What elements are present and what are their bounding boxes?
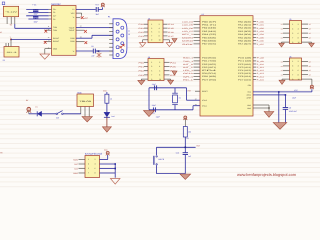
J3 right net labels bbox=[168, 23, 174, 38]
wire U1 AVCC rail bbox=[253, 94, 297, 100]
U1 left stubs PB bbox=[194, 22, 201, 44]
svg-text:LCD_D5: LCD_D5 bbox=[182, 24, 193, 27]
svg-text:PD1 (TXD): PD1 (TXD) bbox=[202, 60, 217, 63]
svg-text:PD3 (INT1): PD3 (INT1) bbox=[202, 66, 217, 69]
svg-text:P15: P15 bbox=[168, 27, 174, 30]
J5 right marks bbox=[309, 23, 311, 40]
svg-text:XTAL2: XTAL2 bbox=[202, 99, 207, 102]
svg-text:P_AD0: P_AD0 bbox=[257, 20, 264, 23]
U2 T2IN no-connect bbox=[44, 30, 51, 33]
U2 left pin stubs bbox=[49, 9, 52, 19]
svg-text:V+: V+ bbox=[72, 8, 74, 11]
svg-text:6: 6 bbox=[95, 167, 96, 170]
power J6 right bbox=[310, 86, 314, 89]
J6 VCC wire right bbox=[302, 79, 312, 85]
svg-text:1: 1 bbox=[151, 23, 152, 26]
svg-text:PA1 (AD1): PA1 (AD1) bbox=[238, 24, 252, 27]
U1 right net labels PA bbox=[257, 20, 264, 45]
connector P1 DB9 bbox=[108, 16, 127, 59]
svg-text:7: 7 bbox=[151, 35, 152, 38]
svg-text:LCD_D4: LCD_D4 bbox=[182, 20, 193, 23]
svg-text:SW-PB: SW-PB bbox=[158, 158, 165, 161]
wire U1 VCC rail bbox=[253, 89, 312, 93]
svg-text:D1: D1 bbox=[35, 106, 37, 109]
svg-text:PB3 (AIN1): PB3 (AIN1) bbox=[202, 30, 217, 33]
ground J3 right bbox=[166, 43, 172, 47]
LED D2 bbox=[104, 112, 115, 127]
svg-text:1: 1 bbox=[88, 158, 89, 161]
svg-text:x1: x1 bbox=[281, 69, 283, 72]
svg-text:www.benfanprojects.blogspot.co: www.benfanprojects.blogspot.com bbox=[237, 172, 297, 177]
svg-text:PC5 (A13): PC5 (A13) bbox=[238, 72, 252, 75]
svg-text:C2-: C2- bbox=[53, 18, 56, 21]
svg-text:WR_1: WR_1 bbox=[183, 75, 193, 78]
svg-text:LED_1: LED_1 bbox=[183, 69, 193, 72]
label S2 bbox=[140, 46, 142, 49]
svg-text:P11: P11 bbox=[139, 27, 145, 30]
svg-text:x1: x1 bbox=[281, 37, 283, 40]
svg-text:4: 4 bbox=[159, 65, 160, 68]
svg-text:PA4 (AD4): PA4 (AD4) bbox=[238, 33, 252, 36]
svg-text:5: 5 bbox=[151, 31, 152, 34]
svg-text:PA3 (AD3): PA3 (AD3) bbox=[238, 30, 252, 33]
marker P1 pin8 bbox=[120, 46, 122, 48]
wire reset node bbox=[157, 145, 201, 149]
svg-text:GND: GND bbox=[53, 47, 58, 50]
svg-text:MISO: MISO bbox=[73, 172, 78, 175]
svg-text:P16: P16 bbox=[168, 31, 174, 34]
ground LED bbox=[102, 127, 111, 132]
svg-text:7: 7 bbox=[292, 73, 293, 76]
svg-text:XTAL1: XTAL1 bbox=[202, 105, 207, 108]
J4 right net labels bbox=[170, 61, 176, 77]
net label VCC LED bbox=[103, 90, 107, 93]
svg-text:SW: SW bbox=[56, 117, 59, 120]
P1 side labels bbox=[128, 30, 130, 36]
svg-text:x1: x1 bbox=[281, 32, 283, 35]
svg-text:PC1 (A9): PC1 (A9) bbox=[238, 60, 252, 63]
svg-text:PD6 (WR): PD6 (WR) bbox=[202, 75, 217, 78]
svg-text:10: 10 bbox=[298, 78, 300, 81]
svg-text:S2: S2 bbox=[140, 46, 142, 49]
svg-text:3: 3 bbox=[292, 27, 293, 30]
J5 left marks bbox=[281, 23, 283, 40]
svg-text:R1IN: R1IN bbox=[70, 37, 75, 40]
svg-text:6: 6 bbox=[159, 69, 160, 72]
capacitor C1 bbox=[26, 4, 49, 16]
svg-text:PC4 (A12): PC4 (A12) bbox=[238, 69, 252, 72]
svg-text:PB2 (AIN0): PB2 (AIN0) bbox=[202, 27, 217, 30]
U1 right net labels PC bbox=[257, 57, 264, 82]
svg-text:AREF: AREF bbox=[246, 97, 251, 100]
svg-text:x1: x1 bbox=[281, 23, 283, 26]
U2 V- stub bbox=[76, 16, 80, 18]
svg-text:P24: P24 bbox=[170, 61, 176, 64]
svg-text:PD4: PD4 bbox=[202, 69, 216, 72]
svg-text:MOSI: MOSI bbox=[73, 158, 78, 161]
ground rail crystal bbox=[148, 88, 150, 110]
P1 pin9 no-connect bbox=[122, 44, 124, 46]
U1 bottom-right labels bbox=[246, 84, 251, 110]
svg-text:P_A12: P_A12 bbox=[257, 69, 264, 72]
svg-text:TXD_1: TXD_1 bbox=[183, 60, 193, 63]
connector J6 header bbox=[283, 55, 308, 80]
svg-text:PB4 (SS): PB4 (SS) bbox=[202, 33, 217, 36]
U1 left net labels PD bbox=[183, 57, 195, 82]
svg-text:x1: x1 bbox=[281, 60, 283, 63]
svg-text:5: 5 bbox=[88, 167, 89, 170]
svg-text:PB6 (MISO): PB6 (MISO) bbox=[202, 40, 217, 43]
svg-text:7: 7 bbox=[292, 36, 293, 39]
svg-text:R2IN: R2IN bbox=[70, 40, 75, 43]
wire T1OUT to P1 bbox=[76, 25, 113, 28]
svg-text:x2: x2 bbox=[309, 69, 311, 72]
IC U2 MAX232 bbox=[51, 3, 76, 56]
svg-text:P22: P22 bbox=[139, 70, 145, 73]
svg-text:x2: x2 bbox=[309, 74, 311, 77]
marker ground C8 bbox=[97, 52, 102, 57]
capacitor C2 bbox=[26, 16, 49, 24]
label S1 bbox=[3, 59, 6, 62]
svg-text:PC0 (A8): PC0 (A8) bbox=[238, 57, 252, 60]
svg-text:x2: x2 bbox=[309, 23, 311, 26]
svg-text:MOSI: MOSI bbox=[182, 36, 194, 39]
svg-text:11: 11 bbox=[128, 30, 130, 33]
svg-text:PD7 (RD): PD7 (RD) bbox=[202, 78, 217, 81]
svg-text:INT_1: INT_1 bbox=[183, 66, 193, 69]
wire switch to regulator bbox=[63, 113, 81, 115]
svg-text:P_AD6: P_AD6 bbox=[257, 40, 264, 43]
svg-text:10: 10 bbox=[159, 78, 161, 81]
svg-text:6: 6 bbox=[298, 32, 299, 35]
svg-text:11: 11 bbox=[48, 26, 50, 28]
svg-text:PC2 (A10): PC2 (A10) bbox=[238, 63, 252, 66]
svg-text:2: 2 bbox=[298, 60, 299, 63]
capacitor C5 bbox=[152, 104, 161, 118]
J4 gnd wire left bbox=[141, 79, 148, 80]
U1 bottom-left labels bbox=[202, 90, 208, 108]
svg-text:LCD_D7: LCD_D7 bbox=[182, 30, 193, 33]
svg-text:+C7: +C7 bbox=[95, 3, 99, 6]
decoupling rail 1 bbox=[278, 92, 280, 123]
U2 pin numbers bbox=[48, 26, 50, 50]
svg-text:T1OUT: T1OUT bbox=[69, 26, 76, 29]
connector J1 bbox=[2, 2, 19, 24]
svg-text:R2OUT: R2OUT bbox=[53, 40, 60, 43]
svg-text:2: 2 bbox=[159, 61, 160, 64]
U1 right stubs PC bbox=[253, 58, 256, 80]
connector J3 header bbox=[144, 17, 168, 42]
svg-text:P17: P17 bbox=[168, 35, 174, 38]
svg-text:PA5 (AD5): PA5 (AD5) bbox=[238, 36, 252, 39]
power VCC reset bbox=[183, 116, 187, 127]
svg-text:9: 9 bbox=[151, 78, 152, 81]
J5 gnd wire left bbox=[282, 42, 290, 43]
svg-text:P_AD5: P_AD5 bbox=[257, 36, 264, 39]
svg-text:PA7 (AD7): PA7 (AD7) bbox=[238, 43, 252, 46]
connector J7 ISP bbox=[79, 153, 104, 178]
svg-text:4: 4 bbox=[159, 27, 160, 30]
svg-text:PA0 (AD0): PA0 (AD0) bbox=[238, 20, 252, 23]
J7 ground wires bbox=[100, 163, 117, 178]
svg-text:9: 9 bbox=[292, 41, 293, 44]
svg-text:C2+: C2+ bbox=[53, 15, 56, 18]
svg-text:P_A9: P_A9 bbox=[257, 60, 264, 63]
svg-text:5: 5 bbox=[151, 69, 152, 72]
ground J5 right bbox=[309, 43, 315, 47]
svg-text:C13: C13 bbox=[176, 151, 179, 154]
U1 left stubs PD bbox=[194, 58, 201, 80]
capacitor C9 bbox=[283, 95, 298, 123]
resistor R1 bbox=[105, 92, 112, 112]
svg-text:x2: x2 bbox=[309, 28, 311, 31]
svg-text:PD5 (OC1A): PD5 (OC1A) bbox=[202, 72, 217, 75]
wire J2 to MAX232 R1OUT bbox=[11, 38, 52, 40]
svg-text:x1: x1 bbox=[281, 74, 283, 77]
U2 R2OUT no-connect bbox=[44, 41, 52, 44]
svg-text:P_AD7: P_AD7 bbox=[257, 43, 264, 46]
svg-text:1: 1 bbox=[292, 60, 293, 63]
svg-text:R2: R2 bbox=[187, 137, 189, 140]
svg-text:P12: P12 bbox=[139, 31, 145, 34]
resistor R2 bbox=[183, 127, 191, 148]
svg-text:C1-: C1- bbox=[53, 11, 56, 14]
connector J4 header bbox=[144, 56, 170, 81]
wire J1 to MAX232 T1IN bbox=[15, 24, 52, 28]
svg-text:RST: RST bbox=[188, 89, 191, 92]
svg-text:P_A8: P_A8 bbox=[257, 57, 264, 60]
wire XTAL2 bbox=[149, 88, 200, 101]
J6 right marks bbox=[309, 60, 311, 76]
J3 gnd wire left bbox=[143, 40, 148, 43]
svg-text:PB5 (MOSI): PB5 (MOSI) bbox=[202, 36, 217, 39]
svg-text:C1+: C1+ bbox=[53, 8, 56, 11]
svg-text:MISO: MISO bbox=[182, 40, 195, 43]
ground J4 right bbox=[168, 80, 174, 84]
ground J5 left bbox=[279, 43, 285, 47]
svg-text:P_AD3: P_AD3 bbox=[257, 30, 264, 33]
svg-text:3: 3 bbox=[292, 65, 293, 68]
svg-text:1k: 1k bbox=[110, 97, 112, 100]
IC U1 MCU bbox=[200, 13, 253, 116]
svg-text:KEY_1: KEY_1 bbox=[182, 33, 193, 36]
U1 right pin labels PC bbox=[238, 57, 252, 82]
ground under MAX232 bbox=[40, 54, 50, 59]
svg-text:VCC: VCC bbox=[84, 17, 89, 20]
svg-text:x2: x2 bbox=[309, 37, 311, 40]
svg-text:1: 1 bbox=[292, 23, 293, 26]
U1 RESET stub bbox=[188, 89, 200, 92]
svg-text:P_AD4: P_AD4 bbox=[257, 33, 264, 36]
wire R1IN to P1 bbox=[76, 35, 113, 38]
switch SW2 push button bbox=[154, 147, 165, 173]
ground U1 bbox=[264, 112, 274, 118]
svg-text:x1: x1 bbox=[281, 65, 283, 68]
junction C8 node bbox=[96, 50, 114, 52]
capacitor C7 bbox=[76, 3, 103, 16]
svg-text:PE0: PE0 bbox=[248, 84, 251, 87]
svg-text:10: 10 bbox=[298, 41, 300, 44]
label 9V bbox=[10, 24, 13, 27]
svg-text:8: 8 bbox=[298, 73, 299, 76]
ground J6 left bbox=[279, 80, 285, 84]
svg-text:6: 6 bbox=[298, 69, 299, 72]
svg-text:PC7 (A15): PC7 (A15) bbox=[238, 78, 252, 81]
power VCC ISP bbox=[100, 148, 110, 159]
svg-text:PC6 (A14): PC6 (A14) bbox=[238, 75, 252, 78]
wire button to ground bbox=[157, 173, 186, 175]
svg-text:P10: P10 bbox=[139, 23, 145, 26]
svg-text:P_AD2: P_AD2 bbox=[257, 27, 264, 30]
connector J2 bbox=[4, 39, 19, 57]
svg-text:PC3 (A11): PC3 (A11) bbox=[238, 66, 252, 69]
svg-text:P_A13: P_A13 bbox=[257, 72, 264, 75]
U2 R2IN no-connect bbox=[76, 41, 87, 44]
svg-text:P_A14: P_A14 bbox=[257, 75, 264, 78]
U2 GND pin wire bbox=[45, 49, 52, 54]
connector J5 header bbox=[283, 18, 308, 44]
svg-text:+ C1: + C1 bbox=[32, 4, 36, 7]
J6 left marks bbox=[281, 60, 283, 76]
svg-text:10k: 10k bbox=[188, 130, 191, 133]
svg-text:3: 3 bbox=[88, 163, 89, 166]
crystal X1 bbox=[172, 88, 181, 110]
ground crystal bbox=[144, 111, 155, 117]
ground regulator bbox=[82, 117, 92, 122]
svg-text:P_A15: P_A15 bbox=[257, 78, 264, 81]
svg-text:9: 9 bbox=[292, 78, 293, 81]
svg-text:78L05: 78L05 bbox=[79, 100, 91, 103]
svg-text:3: 3 bbox=[151, 65, 152, 68]
svg-text:RESET: RESET bbox=[202, 90, 208, 93]
ground ISP bbox=[110, 179, 120, 185]
svg-text:104/0.1uF: 104/0.1uF bbox=[289, 110, 298, 113]
U2 VCC pin stub bbox=[76, 13, 89, 20]
power VCC right bbox=[310, 85, 314, 89]
svg-text:PB7 (SCK): PB7 (SCK) bbox=[202, 43, 217, 46]
svg-text:2: 2 bbox=[298, 23, 299, 26]
power symbol left PD bbox=[172, 71, 177, 75]
svg-text:R1OUT: R1OUT bbox=[53, 37, 60, 40]
svg-text:x1: x1 bbox=[281, 28, 283, 31]
J3 gnd wire right bbox=[163, 40, 169, 43]
diode D1 bbox=[35, 106, 56, 117]
svg-text:PA2 (AD2): PA2 (AD2) bbox=[238, 27, 252, 30]
ground J4 left bbox=[138, 80, 145, 84]
svg-text:7: 7 bbox=[151, 74, 152, 77]
svg-text:4: 4 bbox=[298, 27, 299, 30]
svg-text:INT_0: INT_0 bbox=[183, 63, 193, 66]
svg-text:x2: x2 bbox=[309, 65, 311, 68]
power VCC MAX232 bbox=[101, 3, 105, 7]
J7 left net labels bbox=[73, 158, 78, 175]
wire XTAL1 bbox=[149, 103, 200, 110]
svg-text:5: 5 bbox=[292, 69, 293, 72]
svg-text:PD2 (INT0): PD2 (INT0) bbox=[202, 63, 217, 66]
svg-text:x2: x2 bbox=[309, 60, 311, 63]
ground decoupling bbox=[273, 123, 287, 130]
J3 left net labels bbox=[139, 23, 145, 38]
svg-text:10: 10 bbox=[159, 39, 161, 42]
svg-text:PB1 (T1): PB1 (T1) bbox=[202, 24, 217, 27]
svg-text:4: 4 bbox=[95, 163, 96, 166]
background grid bbox=[0, 0, 320, 188]
J5 gnd wire right bbox=[302, 42, 312, 43]
svg-text:6: 6 bbox=[159, 31, 160, 34]
U1 left pin labels PD bbox=[202, 57, 217, 82]
svg-text:P14: P14 bbox=[168, 23, 174, 26]
svg-text:C9: C9 bbox=[289, 107, 291, 110]
junction J2 pin bbox=[10, 36, 12, 40]
svg-text:AVCC: AVCC bbox=[246, 94, 251, 97]
J4 gnd wire right bbox=[164, 79, 171, 80]
J4 left net labels bbox=[139, 61, 145, 77]
svg-text:P23: P23 bbox=[139, 74, 145, 77]
svg-text:P25: P25 bbox=[170, 66, 176, 69]
svg-text:RXD_1: RXD_1 bbox=[183, 57, 193, 60]
svg-text:2: 2 bbox=[95, 158, 96, 161]
svg-text:C8: C8 bbox=[91, 45, 93, 48]
svg-text:P21: P21 bbox=[139, 66, 145, 69]
svg-text:T: T bbox=[10, 36, 11, 39]
svg-text:P_AD1: P_AD1 bbox=[257, 24, 264, 27]
ground reset bbox=[180, 174, 191, 179]
svg-text:12: 12 bbox=[48, 37, 50, 39]
svg-text:X1: X1 bbox=[179, 96, 181, 99]
svg-text:2: 2 bbox=[159, 23, 160, 26]
svg-text:P_A10: P_A10 bbox=[257, 63, 264, 66]
svg-text:x2: x2 bbox=[309, 32, 311, 35]
U1 right stubs PA bbox=[253, 22, 256, 44]
U1 left net labels PB bbox=[182, 20, 196, 45]
svg-text:7: 7 bbox=[88, 172, 89, 175]
svg-text:~9-12V: ~9-12V bbox=[5, 11, 19, 14]
svg-text:PB0 (ICP): PB0 (ICP) bbox=[202, 20, 217, 23]
svg-text:T2OUT: T2OUT bbox=[69, 29, 76, 32]
svg-text:3: 3 bbox=[151, 27, 152, 30]
svg-text:4: 4 bbox=[298, 65, 299, 68]
net label VIN left edge bbox=[0, 31, 2, 34]
url text bbox=[237, 172, 297, 177]
left edge mark bbox=[0, 152, 3, 155]
capacitor C13 bbox=[176, 147, 192, 173]
svg-text:8: 8 bbox=[159, 35, 160, 38]
svg-text:LCD_D6: LCD_D6 bbox=[182, 27, 193, 30]
U2 T2OUT no-connect bbox=[76, 30, 87, 33]
svg-text:RD_1: RD_1 bbox=[183, 78, 193, 81]
svg-text:P20: P20 bbox=[139, 61, 145, 64]
svg-text:5: 5 bbox=[292, 32, 293, 35]
svg-text:P_A11: P_A11 bbox=[257, 66, 264, 69]
svg-text:Led: Led bbox=[111, 115, 114, 118]
switch SW1 bbox=[56, 111, 63, 120]
capacitor C4 bbox=[152, 83, 157, 90]
svg-text:8: 8 bbox=[298, 36, 299, 39]
svg-text:SIL-3: SIL-3 bbox=[7, 51, 17, 54]
capacitor C8 bbox=[76, 45, 100, 58]
J6 gnd wire left bbox=[282, 79, 290, 80]
svg-text:9: 9 bbox=[151, 39, 152, 42]
regulator VR1 7805 bbox=[77, 92, 94, 117]
svg-text:10: 10 bbox=[128, 33, 130, 36]
svg-text:P13: P13 bbox=[139, 35, 145, 38]
U1 left pin labels PB bbox=[202, 20, 217, 45]
svg-text:1: 1 bbox=[151, 61, 152, 64]
ground J3 left bbox=[139, 43, 145, 47]
power input symbol bbox=[26, 99, 37, 114]
U2 pin labels bbox=[53, 8, 75, 53]
U1 right pin labels PA bbox=[238, 20, 252, 45]
